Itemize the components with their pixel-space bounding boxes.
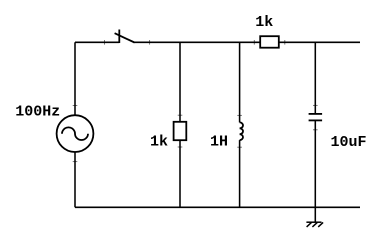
svg-text:1H: 1H — [210, 133, 228, 150]
capacitor C1 bottom pin tick — [313, 129, 318, 131]
resistor R2 left pin tick — [253, 40, 255, 45]
resistor R1 body — [174, 122, 187, 140]
wire resistor R1 branch upper — [179, 42, 181, 122]
capacitor C1 top plate — [309, 113, 323, 115]
ground bar — [306, 221, 321, 223]
wire inductor L1 branch upper — [239, 42, 241, 122]
switch S1 post — [118, 30, 120, 44]
svg-text:1k: 1k — [150, 133, 168, 150]
resistor R1 bottom pin tick — [178, 146, 183, 148]
wire top right from resistor R2 to open terminal — [279, 41, 360, 43]
wire inductor L1 branch lower — [239, 140, 241, 207]
wire top middle from switch to resistor R2 — [134, 41, 260, 43]
svg-text:10uF: 10uF — [331, 134, 367, 151]
switch S1 arm — [115, 33, 135, 42]
capacitor C1 top pin tick — [313, 104, 318, 106]
inductor L1 coil — [240, 122, 243, 140]
wire capacitor C1 branch upper — [314, 42, 316, 114]
AC source V1 sine wave — [62, 127, 88, 140]
wire capacitor C1 branch lower — [314, 120, 316, 207]
svg-text:1k: 1k — [255, 14, 273, 31]
AC source V1 circle — [57, 115, 94, 152]
AC source V1 bottom pin tick — [73, 161, 78, 163]
wire bottom rail — [75, 206, 360, 208]
wire top-left horizontal from source corner to switch — [75, 41, 119, 43]
inductor L1 top pin tick — [237, 114, 242, 116]
resistor R2 right pin tick — [284, 40, 286, 45]
wire resistor R1 branch lower — [179, 140, 181, 207]
capacitor C1 bottom plate — [309, 119, 323, 121]
switch S1 left pin tick — [104, 40, 106, 45]
inductor L1 bottom pin tick — [237, 146, 242, 148]
resistor R2 body — [260, 36, 279, 48]
resistor R1 top pin tick — [178, 114, 183, 116]
svg-text:100Hz: 100Hz — [15, 104, 60, 121]
ground hatch 2 — [312, 222, 317, 227]
ground hatch 1 — [307, 222, 312, 227]
wire ground stub — [314, 207, 316, 222]
ground hatch 3 — [318, 222, 323, 227]
wire left vertical from source bottom to bottom rail — [74, 152, 76, 208]
switch S1 right pin tick — [149, 40, 151, 45]
wire left vertical from top corner down to source top — [74, 42, 76, 115]
AC source V1 top pin tick — [73, 105, 78, 107]
